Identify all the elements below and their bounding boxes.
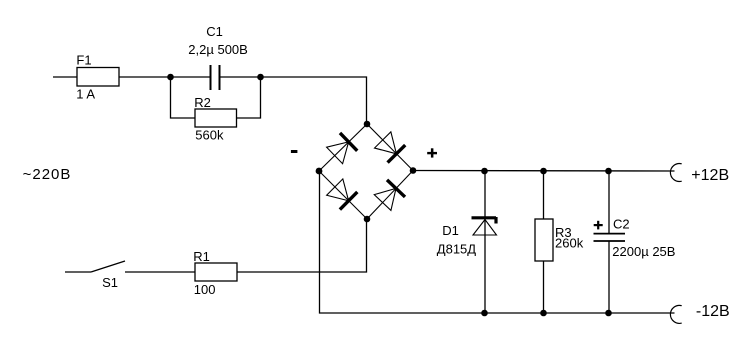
node bridge right: [410, 167, 417, 174]
resistor R1: [195, 263, 237, 281]
resistor R2: [195, 109, 237, 127]
node junction C1 left: [167, 74, 174, 81]
zener D1 symbol: [472, 217, 497, 235]
label plus of C2: [594, 221, 603, 230]
diode VD top-right: [374, 131, 405, 162]
capacitor C1: [211, 65, 220, 90]
wire plus rail: bridge right node to +12V terminal: [413, 170, 675, 173]
svg-text:R2: R2: [194, 95, 211, 110]
wire R2 branch left: [171, 77, 196, 118]
node +rail D1: [481, 168, 488, 175]
resistor R3: [535, 219, 553, 261]
wire S1 to R1: [125, 271, 195, 273]
wire C1 to bridge top: [220, 77, 367, 124]
wire bridge arm bottom-left: [319, 171, 367, 219]
wire minus rail: bridge left node down and along bottom: [320, 171, 675, 313]
node -rail R3: [540, 310, 547, 317]
fuse F1: [77, 68, 119, 87]
label plus of bridge: [427, 148, 437, 157]
node bridge top: [364, 121, 371, 128]
wire R2 branch right: [237, 77, 261, 118]
svg-text:~220В: ~220В: [23, 166, 72, 183]
node bridge bottom: [364, 216, 371, 223]
node +rail C2: [605, 168, 612, 175]
diode VD top-left: [326, 133, 357, 164]
svg-text:Д815Д: Д815Д: [437, 241, 476, 256]
wire F1 to C1: [119, 76, 210, 78]
wire top input left: [53, 76, 77, 78]
svg-text:260k: 260k: [555, 235, 584, 250]
svg-text:C1: C1: [206, 24, 223, 39]
node bridge left: [316, 168, 323, 175]
capacitor C2 branch wire top: [608, 171, 610, 233]
svg-text:D1: D1: [442, 223, 459, 238]
svg-text:-12В: -12В: [696, 303, 730, 320]
node +rail R3: [540, 168, 547, 175]
wire bridge arm top-left: [319, 124, 367, 171]
svg-text:100: 100: [194, 282, 216, 297]
resistor R3 branch wire bottom: [543, 261, 545, 313]
svg-text:560k: 560k: [195, 127, 224, 142]
svg-text:S1: S1: [102, 275, 118, 290]
terminal -12V arc: [670, 305, 681, 323]
svg-text:F1: F1: [76, 53, 91, 68]
terminal +12V arc: [670, 164, 681, 182]
capacitor C2 plates: [594, 234, 626, 241]
capacitor C2 branch wire bottom: [608, 241, 610, 313]
diode VD bottom-right: [374, 180, 405, 211]
zener D1 branch wire: [484, 171, 486, 313]
resistor R3 branch wire top: [543, 171, 545, 219]
wire bridge arm top-right: [367, 124, 413, 171]
wire bridge arm bottom-right: [367, 171, 413, 220]
svg-text:2,2µ 500В: 2,2µ 500В: [188, 42, 248, 57]
wire R1 to bridge bottom: [237, 219, 367, 272]
label minus of bridge: [291, 150, 298, 153]
svg-text:C2: C2: [613, 217, 630, 232]
svg-text:2200µ 25В: 2200µ 25В: [612, 244, 675, 259]
switch S1 blade: [91, 261, 125, 272]
wire switch input: [65, 271, 91, 273]
svg-text:+12В: +12В: [691, 167, 729, 184]
svg-text:R1: R1: [193, 249, 210, 264]
node junction C1 right: [257, 74, 264, 81]
svg-text:1 A: 1 A: [76, 87, 95, 102]
diode VD bottom-left: [326, 178, 357, 209]
node -rail C2: [605, 310, 612, 317]
node -rail D1: [481, 310, 488, 317]
